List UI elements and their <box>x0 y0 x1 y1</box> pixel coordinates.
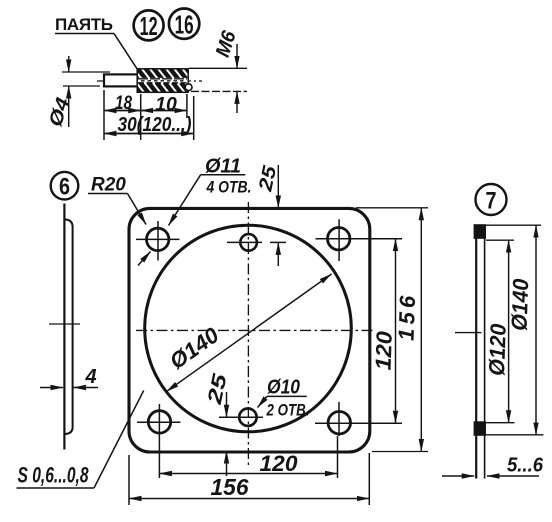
dimension Ø140 diagonal <box>165 274 332 392</box>
hole Ø11 bottom-left <box>137 404 181 478</box>
dimension 120 bottom <box>159 436 337 478</box>
part 6 right edge with jogs <box>64 220 72 435</box>
ring left wall <box>475 225 477 479</box>
hole Ø11 bottom-right <box>315 402 402 436</box>
vertical centerline <box>247 202 249 467</box>
part 6 left edge <box>63 204 65 450</box>
svg-text:2 ОТВ.: 2 ОТВ. <box>266 401 310 420</box>
svg-text:R20: R20 <box>91 175 126 196</box>
hole Ø11 top-right <box>316 219 403 261</box>
svg-text:4 ОТВ.: 4 ОТВ. <box>206 178 252 197</box>
label Ø11 / 4 отв. with leader <box>169 156 252 226</box>
svg-text:156: 156 <box>394 295 421 342</box>
short arrow at hole TL lower-left <box>138 252 151 266</box>
dimension 156 right <box>356 208 428 452</box>
hole Ø11 top-left <box>136 221 180 261</box>
plate outline <box>129 208 370 452</box>
threaded sleeve (part 16) <box>137 69 188 93</box>
label S 0,6...0,8 with leader <box>17 391 144 489</box>
svg-text:5...6: 5...6 <box>507 455 544 477</box>
part 6 centerline <box>49 323 80 325</box>
hole Ø10 bottom-middle <box>219 409 263 426</box>
horizontal centerline <box>136 329 374 331</box>
part balloon 16 <box>169 9 199 40</box>
dimension M6 <box>189 28 247 113</box>
sleeve right end cap <box>185 84 192 91</box>
label ПАЯТЬ <box>55 15 114 34</box>
part balloon 12 <box>134 10 164 41</box>
ring centerline <box>455 332 482 334</box>
svg-text:7: 7 <box>486 188 497 215</box>
leader from ПАЯТЬ to sleeve <box>114 34 138 70</box>
rod body (part 12) <box>104 74 140 86</box>
dimension 5...6 (part 7) <box>442 455 544 477</box>
svg-text:6: 6 <box>59 174 70 201</box>
svg-text:ПАЯТЬ: ПАЯТЬ <box>55 15 113 34</box>
svg-text:Ø10: Ø10 <box>267 377 300 399</box>
svg-text:18: 18 <box>115 92 132 114</box>
svg-text:10: 10 <box>155 94 177 116</box>
dimension Ø120 (part 7) <box>483 240 515 423</box>
dimension 120 right <box>371 239 397 424</box>
part balloon 6 <box>51 172 79 201</box>
ring top section square <box>474 224 486 239</box>
label R20 with leader <box>88 175 146 225</box>
svg-text:S 0,6...0,8: S 0,6...0,8 <box>18 463 90 488</box>
label Ø10 / 2 отв. with leader <box>258 377 310 420</box>
svg-text:30(120...): 30(120...) <box>118 114 192 136</box>
hole Ø10 top-middle <box>227 234 262 251</box>
svg-text:12: 12 <box>140 11 158 41</box>
dimension 156 bottom <box>129 453 369 505</box>
ring bottom section square <box>474 421 486 436</box>
dimension Ø140 (part 7) <box>474 225 544 435</box>
svg-text:156: 156 <box>211 474 249 500</box>
dimension 30(120...) <box>104 96 194 140</box>
dimension 18 / 10 row <box>104 90 187 140</box>
dimension 25 bottom <box>204 371 232 476</box>
svg-text:Ø140: Ø140 <box>507 278 534 332</box>
dimension 4 <box>40 366 98 388</box>
part balloon 7 <box>476 184 507 215</box>
dimension Ø4 <box>45 56 110 129</box>
svg-text:120: 120 <box>260 451 299 476</box>
svg-text:4: 4 <box>85 366 97 388</box>
ring right wall <box>484 225 486 479</box>
svg-text:16: 16 <box>175 9 194 39</box>
dimension 25 top <box>255 164 286 266</box>
rod centerline <box>97 80 202 82</box>
big circle Ø140 <box>145 225 352 432</box>
